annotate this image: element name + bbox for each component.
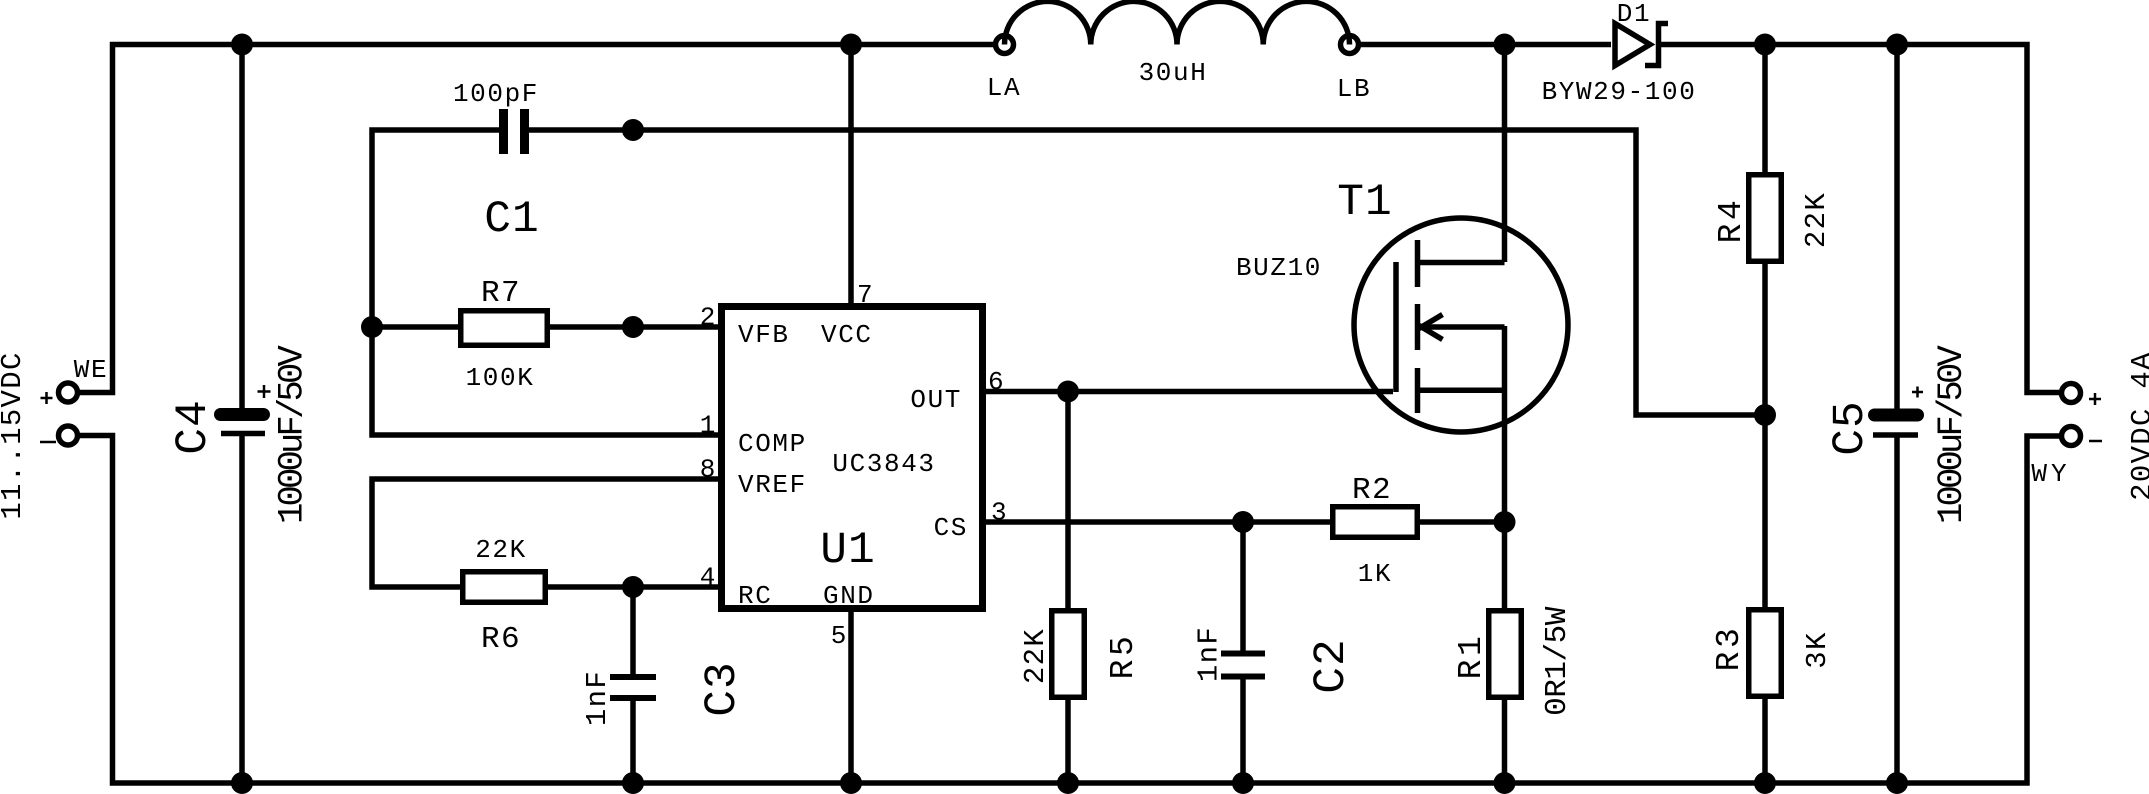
svg-text:CS: CS	[934, 513, 968, 543]
label WE minus sign	[40, 441, 56, 444]
svg-text:C3: C3	[698, 661, 748, 716]
svg-text:5: 5	[831, 621, 848, 651]
svg-text:C2: C2	[1307, 638, 1357, 693]
node drain top	[1494, 34, 1516, 56]
capacitor C1 100pF plates	[504, 109, 525, 154]
svg-text:7: 7	[857, 280, 874, 310]
svg-text:C1: C1	[484, 195, 539, 245]
svg-text:VREF: VREF	[738, 470, 807, 500]
wire R6 right lead to RC pin4	[548, 584, 718, 590]
transistor T1 BUZ10 MOSFET	[1354, 218, 1568, 432]
wire C2 bottom lead	[1240, 679, 1246, 783]
node source R2 R1	[1494, 511, 1516, 533]
wire R4 bottom lead to divider node	[1762, 264, 1768, 415]
svg-text:22K: 22K	[1019, 628, 1052, 684]
svg-text:R3: R3	[1711, 625, 1748, 672]
svg-text:22K: 22K	[1800, 192, 1833, 248]
label WY minus sign	[2089, 440, 2102, 443]
svg-text:4: 4	[700, 563, 717, 593]
svg-text:R2: R2	[1352, 473, 1392, 508]
diode D1 BYW29-100	[1615, 24, 1668, 66]
svg-text:D1: D1	[1617, 0, 1651, 29]
node R5 bottom	[1057, 772, 1079, 794]
svg-text:100K: 100K	[466, 363, 535, 393]
wire R5 bottom lead	[1065, 700, 1071, 783]
resistor R7 100K	[461, 311, 548, 346]
svg-text:R6: R6	[481, 622, 521, 657]
terminal WY-	[2062, 427, 2081, 446]
svg-text:1000uF/50V: 1000uF/50V	[272, 344, 313, 524]
svg-text:1000uF/50V: 1000uF/50V	[1931, 344, 1972, 524]
svg-text:C4: C4	[169, 399, 219, 454]
svg-text:3: 3	[991, 498, 1008, 528]
svg-text:1K: 1K	[1358, 559, 1392, 589]
wire bottom rail from WE- around to WY-	[80, 436, 2059, 784]
capacitor C5 electrolytic plates	[1873, 415, 1918, 435]
svg-text:LB: LB	[1337, 74, 1371, 104]
wire C3 bottom lead	[630, 701, 636, 783]
wire C2 top lead	[1240, 522, 1246, 651]
wire C5 bottom lead	[1894, 435, 1900, 783]
svg-text:R1: R1	[1453, 633, 1490, 680]
svg-text:T1: T1	[1337, 178, 1392, 228]
node OUT R5	[1057, 381, 1079, 403]
wire CS pin3 to R2 left	[986, 519, 1330, 525]
resistor R6 22K	[463, 572, 546, 603]
node C3 bottom	[622, 772, 644, 794]
svg-text:R4: R4	[1713, 197, 1750, 244]
node VCC top	[840, 34, 862, 56]
svg-text:LA: LA	[987, 73, 1021, 103]
wire R3 bottom lead	[1762, 699, 1768, 783]
wire C4 top lead	[239, 45, 245, 410]
node R7 right VFB	[622, 316, 644, 338]
label C5 plus sign	[1912, 387, 1923, 398]
label WY plus sign	[2089, 393, 2101, 405]
svg-text:1: 1	[700, 411, 717, 441]
node R3 bottom	[1754, 772, 1776, 794]
wire C5 top lead	[1894, 45, 1900, 410]
terminal WE-	[59, 426, 78, 445]
wire C4 bottom lead	[239, 434, 245, 783]
node C4 top	[231, 34, 253, 56]
svg-text:COMP: COMP	[738, 429, 807, 459]
svg-text:VCC: VCC	[821, 320, 873, 350]
svg-text:11..15VDC: 11..15VDC	[0, 351, 29, 519]
resistor R4 22K	[1749, 175, 1782, 262]
wire R4 top lead	[1762, 45, 1768, 173]
capacitor C2 1nF plates	[1221, 654, 1265, 677]
node R4 R3 divider	[1754, 404, 1776, 426]
svg-text:0R1/5W: 0R1/5W	[1540, 606, 1575, 716]
inductor L1 30uH	[996, 1, 1359, 53]
svg-text:R7: R7	[481, 276, 521, 311]
svg-text:BUZ10: BUZ10	[1236, 253, 1322, 283]
terminal WE+	[59, 383, 78, 402]
svg-text:22K: 22K	[475, 535, 527, 565]
svg-text:UC3843: UC3843	[832, 449, 935, 479]
node R4 top	[1754, 34, 1776, 56]
wire R7 left lead	[372, 324, 460, 330]
svg-text:U1: U1	[820, 526, 875, 576]
wire drain vertical	[1502, 45, 1508, 263]
op-amp U1 UC3843 IC box	[722, 307, 983, 609]
svg-text:100pF: 100pF	[453, 79, 539, 109]
svg-text:8: 8	[700, 455, 717, 485]
wire OUT pin6 to gate	[986, 389, 1393, 395]
resistor R3 3K	[1749, 610, 1782, 697]
svg-text:3K: 3K	[1801, 631, 1834, 668]
node C4 bottom	[231, 772, 253, 794]
svg-text:RC: RC	[738, 581, 772, 611]
wire C1 right lead feedback to R4/R3 node	[529, 130, 1765, 415]
wire source vertical to R1	[1502, 326, 1508, 608]
svg-text:OUT: OUT	[910, 385, 962, 415]
wire C1 left lead and COMP pin1	[372, 130, 718, 435]
resistor R5 22K	[1052, 611, 1085, 698]
node R6 right RC	[622, 576, 644, 598]
svg-text:30uH: 30uH	[1139, 58, 1208, 88]
wire VCC pin7 vertical	[848, 45, 854, 304]
node C5 bottom	[1886, 772, 1908, 794]
wire R7 right lead to VFB pin2	[548, 324, 718, 330]
svg-text:WE: WE	[74, 355, 108, 385]
node R7 left	[361, 316, 383, 338]
wire R5 top lead	[1065, 392, 1071, 609]
svg-text:BYW29-100: BYW29-100	[1542, 77, 1697, 107]
node GND bottom	[840, 772, 862, 794]
wire top-left rail from WE+ to inductor LA	[80, 45, 993, 393]
wire top rail LB to diode anode	[1361, 42, 1611, 48]
svg-text:WY: WY	[2031, 459, 2070, 489]
wire R1 bottom lead	[1502, 700, 1508, 783]
svg-text:C5: C5	[1826, 400, 1876, 455]
capacitor C4 electrolytic plates	[221, 415, 266, 434]
svg-text:2: 2	[700, 303, 717, 333]
terminal WY+	[2062, 384, 2081, 403]
resistor R1 0R1/5W	[1489, 611, 1522, 698]
svg-text:20VDC 4A: 20VDC 4A	[2126, 351, 2149, 501]
wire R3 top lead	[1762, 415, 1768, 607]
resistor R2 1K	[1333, 507, 1418, 538]
svg-text:R5: R5	[1105, 633, 1142, 680]
svg-text:GND: GND	[823, 581, 875, 611]
svg-text:6: 6	[988, 367, 1005, 397]
label C4 plus sign	[258, 385, 271, 398]
wire GND pin5 vertical	[848, 612, 854, 783]
capacitor C3 1nF plates	[610, 677, 656, 698]
svg-text:1nF: 1nF	[1193, 626, 1226, 682]
svg-text:1nF: 1nF	[581, 670, 614, 726]
wire VREF pin8 to R6 left	[372, 479, 718, 587]
label WE plus sign	[41, 392, 53, 404]
node C1 right	[622, 119, 644, 141]
wire diode cathode to top-right corner down to WY+	[1661, 45, 2059, 393]
node CS C2	[1232, 511, 1254, 533]
wire C3 top lead	[630, 587, 636, 674]
node C5 top	[1886, 34, 1908, 56]
node C2 bottom	[1232, 772, 1254, 794]
wire R2 right lead to source node	[1420, 519, 1505, 525]
node R1 bottom	[1494, 772, 1516, 794]
svg-text:VFB: VFB	[738, 320, 790, 350]
